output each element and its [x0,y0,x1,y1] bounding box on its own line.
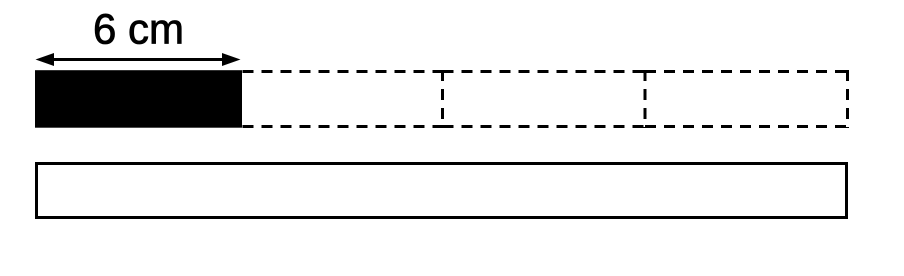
dashed divider 2 [644,70,647,128]
dashed cell 3 bottom edge [645,125,848,128]
dashed cell 2 bottom edge [443,125,646,128]
dashed cell 1 bottom edge [243,125,443,128]
black bar (6 cm segment) [35,70,242,128]
svg-text:6 cm: 6 cm [93,5,184,53]
dimension arrow left head [36,53,55,66]
dimension arrow shaft [52,58,224,61]
dashed cell 1 top edge [243,70,443,73]
dashed divider 1 [441,70,444,128]
dimension arrow right head [222,53,241,66]
dashed cell 3 top edge [645,70,848,73]
dashed cell 2 top edge [443,70,646,73]
dashed right edge [846,70,849,128]
bottom empty bar [37,164,847,218]
